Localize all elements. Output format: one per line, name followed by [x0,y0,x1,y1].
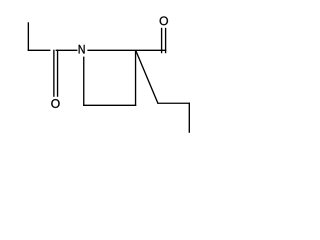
bond N-C2 + C2-CHO (ring top edge continuing to aldehyde carbon) [87,49,166,51]
double bond C=O (amide carbonyl, down to O1) [53,50,55,97]
double bond C=O (aldehyde, up to O2) [161,28,163,53]
atom label O2 (aldehyde oxygen) [160,16,168,25]
bond CH2-C(=O) (horizontal to amide carbon) [28,49,51,51]
bond CH3-CH2 (ethyl vertical) [27,22,29,51]
bond C2-CH2 (propyl chain, diagonal) [136,50,158,103]
bond CH2-CH2 (propyl chain, horizontal) [157,102,190,104]
bond C2-C3 (ring right edge) [135,50,137,106]
atom label O1 (amide oxygen) [51,99,59,108]
bond C(=O)-N (horizontal to ring nitrogen) [56,49,78,51]
bond CH2-CH3 (propyl chain, terminal vertical) [188,103,190,133]
bond C4-C3 (ring bottom edge) [83,104,136,106]
atom label N (azetidine nitrogen) [79,45,85,54]
bond N-C4 (ring left edge) [83,57,85,106]
